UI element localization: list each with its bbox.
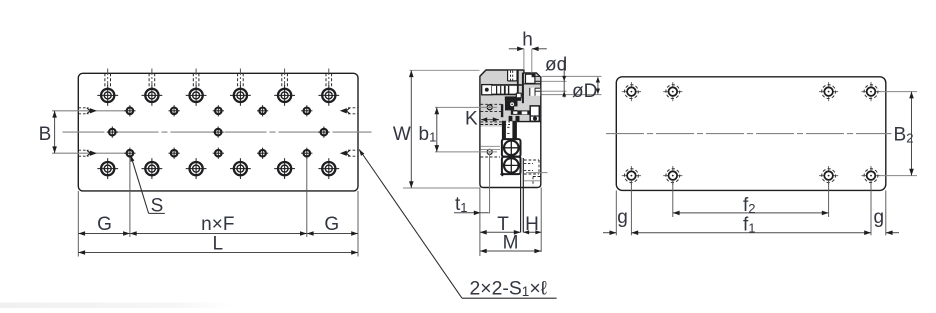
port hole S row4 col4 — [257, 148, 268, 159]
port hole S row4 col1 — [124, 148, 135, 159]
label S leader — [131, 155, 165, 216]
counterbore mounting hole bottom row col1 — [97, 158, 118, 179]
svg-text:K: K — [465, 109, 478, 130]
dimension h — [509, 30, 547, 73]
dimension B2 — [880, 92, 917, 176]
counterbore mounting hole top row col2 — [142, 85, 163, 106]
section body gray fill — [481, 71, 541, 127]
dimension H — [523, 214, 541, 235]
dimension M — [480, 233, 541, 254]
top row hole centerline col6 — [326, 69, 332, 88]
extension lines bottom of top view — [78, 158, 358, 257]
dimension oD — [572, 77, 600, 102]
counterbore mounting hole bottom row col2 — [142, 158, 163, 179]
port hole S row4 col2 — [169, 148, 180, 159]
top row hole centerline col2 — [149, 69, 155, 88]
port hole S row2 col3 — [213, 105, 224, 116]
side port hidden lines right — [340, 150, 358, 156]
svg-text:g: g — [874, 207, 885, 228]
svg-text:h: h — [522, 30, 533, 51]
svg-text:H: H — [525, 214, 539, 235]
port hole S row2 col1 — [124, 105, 135, 116]
pilot port circle upper — [487, 105, 492, 110]
hidden side port right — [524, 160, 548, 174]
port hole S row2 col4 — [257, 105, 268, 116]
thread hole bottom view top row 1 — [622, 82, 641, 101]
dimension K — [465, 109, 499, 130]
dimension od — [542, 55, 602, 98]
horizontal channel — [492, 85, 522, 95]
spool bar right — [522, 73, 524, 104]
counterbore mounting hole bottom row col6 — [318, 158, 339, 179]
hidden corner port right — [524, 177, 540, 187]
counterbore mounting hole top row col4 — [230, 85, 251, 106]
svg-text:øD: øD — [572, 81, 597, 102]
center row port hole 2 — [213, 127, 224, 138]
dimension f2 — [673, 195, 829, 216]
solenoid A section — [502, 139, 521, 157]
svg-text:S: S — [151, 195, 164, 216]
port passage line row2 — [52, 110, 130, 112]
callout 2x2-S1xl leader — [359, 149, 557, 298]
callout 2x2-S1xl text — [470, 277, 548, 299]
pilot port circle lower — [487, 149, 492, 154]
dimension g right — [874, 207, 899, 235]
page artifact bottom left — [0, 303, 232, 309]
bottom view centerline — [606, 133, 892, 135]
counterbore mounting hole top row col5 — [274, 85, 295, 106]
counterbore mounting hole bottom row col4 — [230, 158, 251, 179]
dimension L — [78, 233, 358, 255]
boss notch — [530, 88, 540, 96]
dimension nxF — [130, 214, 307, 236]
spool bar left — [517, 71, 519, 96]
thread hole bottom view top row 2 — [663, 82, 682, 101]
dimension W — [393, 70, 480, 188]
top row hole centerline col5 — [282, 69, 288, 88]
side port hidden lines left — [78, 108, 97, 114]
thread hole bottom view bottom row 2 — [663, 166, 682, 185]
right seal block — [530, 106, 539, 121]
hidden lines lower left — [481, 146, 500, 157]
svg-text:M: M — [503, 233, 519, 254]
dimension g left — [603, 207, 628, 235]
dimension b1 — [419, 107, 498, 151]
center row port hole 1 — [107, 127, 118, 138]
top row hole centerline col3 — [193, 69, 199, 88]
thread hole bottom view top row 3 — [819, 82, 838, 101]
counterbore mounting hole top row col3 — [186, 85, 207, 106]
dimension G left — [78, 214, 130, 236]
boss port cavity — [524, 74, 541, 84]
solenoid B section — [502, 157, 521, 174]
counterbore mounting hole top row col1 — [97, 85, 118, 106]
mounting screw section left — [482, 85, 492, 95]
section body outline — [480, 70, 541, 188]
port passage line row4 — [52, 152, 130, 154]
dimension f1 — [631, 215, 871, 236]
port hole S row4 col5 — [301, 148, 312, 159]
counterbore mounting hole top row col6 — [318, 85, 339, 106]
svg-text:G: G — [97, 214, 112, 235]
svg-text:ød: ød — [545, 55, 567, 76]
top row hole centerline col4 — [238, 69, 244, 88]
dimension T — [480, 214, 521, 235]
svg-text:L: L — [213, 233, 224, 254]
top row hole centerline col1 — [105, 69, 111, 88]
svg-text:G: G — [324, 214, 339, 235]
stem lower tip — [500, 172, 505, 177]
stem tube below — [521, 157, 524, 233]
valve mosaic center — [501, 93, 541, 121]
top pilot port — [508, 71, 517, 81]
svg-text:n×F: n×F — [201, 214, 234, 235]
dimension t1 — [454, 154, 490, 216]
svg-text:2×2-S1×ℓ: 2×2-S1×ℓ — [470, 277, 548, 299]
side port hidden lines left — [78, 150, 97, 156]
plate bottom view outline — [616, 77, 886, 191]
plate top view outline — [78, 73, 358, 191]
port hole S row2 col2 — [169, 105, 180, 116]
side port hidden lines right — [340, 108, 358, 114]
port hole S row2 col5 — [301, 105, 312, 116]
port hole S row4 col3 — [213, 148, 224, 159]
thread hole bottom view bottom row 4 — [861, 166, 880, 185]
extension lines below bottom view — [616, 180, 886, 235]
stem guides — [502, 121, 517, 139]
main horizontal centerline — [63, 131, 372, 133]
svg-text:B: B — [39, 124, 52, 145]
dimension B — [39, 111, 57, 153]
hidden lines left gray region — [481, 104, 510, 124]
counterbore mounting hole bottom row col3 — [186, 158, 207, 179]
counterbore mounting hole bottom row col5 — [274, 158, 295, 179]
dimension G right — [307, 214, 358, 236]
center row port hole 3 — [318, 127, 329, 138]
svg-text:W: W — [393, 124, 411, 145]
extension verticals below section — [480, 188, 541, 257]
svg-text:g: g — [617, 207, 628, 228]
thread hole bottom view bottom row 1 — [622, 166, 641, 185]
thread hole bottom view top row 4 — [861, 82, 880, 101]
thread hole bottom view bottom row 3 — [819, 166, 838, 185]
